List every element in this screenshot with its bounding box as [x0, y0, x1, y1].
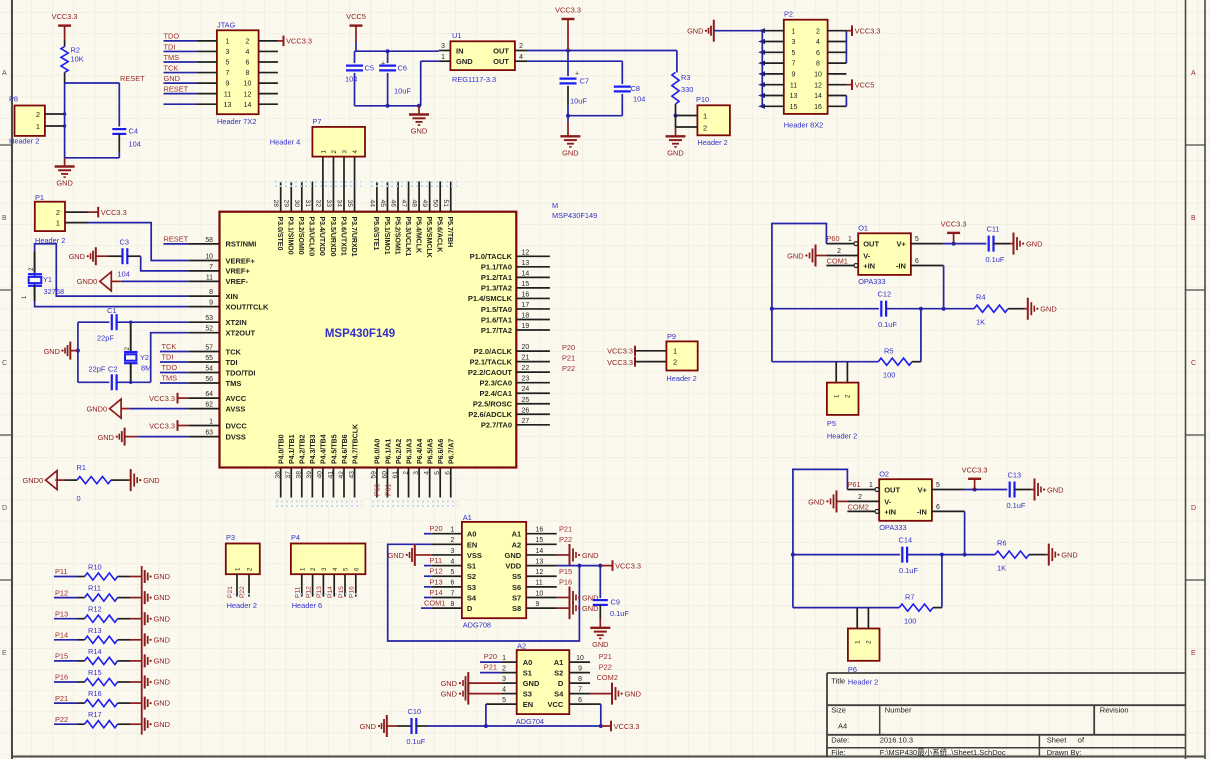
MCU pin 55 TDI	[188, 355, 237, 367]
svg-text:P4.1/TB1: P4.1/TB1	[289, 434, 296, 464]
svg-text:C4: C4	[129, 127, 138, 136]
svg-text:GND: GND	[787, 252, 803, 261]
svg-text:TDI: TDI	[226, 358, 238, 367]
svg-text:P6.7/A7: P6.7/A7	[449, 439, 456, 464]
svg-text:C13: C13	[1008, 471, 1022, 480]
svg-text:25: 25	[522, 397, 530, 404]
wire A1 VDD to VCC3.3	[557, 564, 603, 568]
node TDO label	[164, 32, 180, 41]
node P22 label (A1)	[559, 535, 572, 544]
svg-text:P5.3/UCLK1: P5.3/UCLK1	[404, 217, 411, 257]
svg-text:VCC: VCC	[547, 700, 563, 709]
svg-text:13: 13	[536, 558, 544, 565]
A1 pin 14	[526, 548, 557, 555]
svg-text:GND: GND	[562, 148, 578, 157]
svg-text:45: 45	[379, 200, 386, 208]
svg-text:60: 60	[381, 471, 388, 479]
svg-text:P7: P7	[312, 117, 321, 126]
MCU pin 58 RST/NMI	[188, 237, 256, 249]
svg-text:VDD: VDD	[505, 562, 521, 571]
node P16 label (P4)	[349, 586, 356, 598]
ground GND (R14)	[130, 654, 170, 667]
O2 pin 1 wire	[847, 480, 879, 492]
node P12 label (A1)	[424, 567, 443, 577]
svg-text:9: 9	[792, 72, 796, 79]
svg-text:VCC3.3: VCC3.3	[614, 722, 640, 731]
svg-text:22pF: 22pF	[89, 365, 106, 374]
svg-text:C2: C2	[108, 365, 117, 374]
svg-text:VCC3.3: VCC3.3	[101, 208, 127, 217]
node TDI label	[164, 42, 176, 51]
svg-text:Y2: Y2	[140, 353, 149, 362]
svg-text:1: 1	[848, 236, 852, 243]
svg-text:31: 31	[304, 200, 311, 208]
svg-text:P2.0/ACLK: P2.0/ACLK	[474, 347, 513, 356]
A1 pin 2	[432, 537, 462, 544]
svg-text:GND: GND	[154, 657, 170, 666]
svg-text:R3: R3	[681, 73, 690, 82]
svg-text:P6.5/A5: P6.5/A5	[427, 439, 434, 464]
svg-text:P22: P22	[559, 535, 572, 544]
node RESET label	[164, 84, 189, 93]
svg-text:A: A	[1191, 70, 1196, 77]
MCU pin 18 P1.6/TA1	[481, 312, 550, 324]
resistor R3	[672, 51, 693, 116]
svg-text:MSP430F149: MSP430F149	[325, 328, 395, 340]
capacitor C6 (polarized)	[379, 51, 411, 106]
svg-text:27: 27	[522, 418, 530, 425]
svg-text:22: 22	[522, 365, 530, 372]
P2 value label	[784, 121, 823, 130]
svg-text:P1.5/TA0: P1.5/TA0	[481, 305, 512, 314]
svg-text:1: 1	[869, 482, 873, 489]
svg-text:P2.2/CAOUT: P2.2/CAOUT	[468, 368, 513, 377]
crystal Y1	[22, 244, 188, 301]
svg-text:1: 1	[36, 122, 40, 131]
svg-text:1: 1	[502, 655, 506, 662]
MCU top pin 45 P5.1/SIMO1	[379, 181, 390, 254]
svg-text:7: 7	[209, 264, 213, 271]
wire A2 VCC pin6	[590, 704, 603, 728]
svg-text:Drawn By:: Drawn By:	[1047, 748, 1082, 757]
svg-text:8: 8	[816, 61, 820, 68]
svg-text:COM2: COM2	[597, 673, 618, 682]
svg-text:B: B	[2, 215, 7, 222]
ground GND (R15)	[130, 676, 170, 689]
svg-text:P1.6/TA1: P1.6/TA1	[481, 315, 512, 324]
svg-text:62: 62	[205, 402, 213, 409]
MCU top pin 34 P3.6/UTXD1	[335, 157, 346, 256]
A1 pin 11	[526, 580, 557, 587]
node P21 label (P3)	[227, 586, 234, 598]
svg-text:S1: S1	[467, 562, 476, 571]
svg-text:GND: GND	[360, 722, 376, 731]
MCU pin 53 XT2IN	[188, 315, 246, 327]
svg-text:R4: R4	[976, 293, 985, 302]
MCU top pin 47 P5.3/UCLK1	[400, 181, 411, 256]
JTAG pin 4 wire	[246, 49, 278, 56]
node P14 label (P4)	[327, 586, 334, 598]
wire C2 to XT2OUT	[151, 333, 189, 383]
power VCC3.3 (AVCC)	[149, 393, 188, 404]
JTAG pin 3 wire	[164, 49, 230, 56]
svg-text:P2.6/ADCLK: P2.6/ADCLK	[468, 410, 512, 419]
A2 pin 2	[502, 665, 517, 672]
svg-text:0: 0	[77, 494, 81, 503]
svg-text:P3.0/STE0: P3.0/STE0	[276, 217, 283, 251]
svg-text:P22: P22	[55, 715, 68, 724]
svg-text:E: E	[2, 650, 7, 657]
svg-text:RESET: RESET	[120, 74, 145, 83]
svg-text:AVSS: AVSS	[226, 404, 246, 413]
svg-text:P60: P60	[375, 484, 382, 496]
A2 pin 9	[569, 665, 590, 672]
svg-text:P15: P15	[338, 586, 345, 598]
svg-text:4: 4	[246, 49, 250, 56]
svg-text:3: 3	[502, 676, 506, 683]
svg-text:GND: GND	[592, 640, 608, 649]
svg-text:51: 51	[442, 200, 449, 208]
svg-text:P60: P60	[827, 234, 840, 243]
svg-text:MSP430F149: MSP430F149	[552, 211, 597, 220]
JTAG pin 1 wire	[164, 39, 230, 46]
wire A2 EN to VCC rail	[484, 704, 517, 728]
svg-text:1: 1	[833, 394, 840, 398]
svg-text:R5: R5	[884, 347, 893, 356]
svg-text:54: 54	[205, 366, 213, 373]
svg-text:36: 36	[275, 471, 282, 479]
svg-text:C11: C11	[987, 225, 1000, 234]
node TMS label	[160, 373, 188, 383]
connector P3 Header 2	[226, 533, 260, 610]
P2 pin 1 wire	[762, 28, 795, 35]
wire R7 to C14 node	[941, 555, 943, 608]
svg-text:GND0: GND0	[23, 476, 44, 485]
svg-text:+: +	[575, 71, 579, 78]
svg-text:53: 53	[205, 315, 213, 322]
MCU top pin 29 P3.1/SIMO0	[283, 181, 294, 254]
svg-text:GND: GND	[388, 551, 404, 560]
svg-text:GND: GND	[1040, 305, 1056, 314]
node TDI label	[160, 352, 188, 362]
svg-text:2: 2	[246, 39, 250, 46]
svg-text:12: 12	[522, 249, 530, 256]
MCU top pin 51 P5.7/TBH	[442, 181, 453, 247]
svg-text:5: 5	[936, 482, 940, 489]
svg-text:P10: P10	[696, 95, 709, 104]
svg-text:COM1: COM1	[827, 257, 848, 266]
node P11 label	[54, 567, 78, 576]
svg-text:RST/NMI: RST/NMI	[226, 240, 257, 249]
svg-text:12: 12	[244, 91, 252, 98]
svg-text:P22: P22	[239, 586, 246, 598]
P2 pin 16 wire	[814, 104, 846, 111]
A1 pin 6	[432, 580, 462, 587]
svg-text:C1: C1	[107, 306, 116, 315]
svg-text:0.1uF: 0.1uF	[878, 320, 897, 329]
svg-text:11: 11	[206, 274, 213, 281]
ground GND (regulator)	[409, 106, 429, 136]
svg-text:Header 2: Header 2	[848, 677, 878, 686]
svg-text:P20: P20	[484, 652, 497, 661]
svg-text:A2: A2	[512, 540, 522, 549]
svg-text:P3.3/UCLK0: P3.3/UCLK0	[308, 217, 315, 257]
svg-text:P16: P16	[349, 586, 356, 598]
svg-text:5: 5	[343, 567, 350, 571]
wire regulator gnd rail	[355, 61, 422, 108]
svg-text:P4.2/TB2: P4.2/TB2	[300, 434, 307, 464]
svg-text:P15: P15	[55, 652, 68, 661]
svg-text:GND: GND	[154, 593, 170, 602]
svg-text:VCC3.3: VCC3.3	[555, 6, 581, 15]
svg-text:GND0: GND0	[77, 277, 98, 286]
svg-text:2: 2	[450, 537, 454, 544]
svg-text:15: 15	[536, 537, 544, 544]
svg-text:49: 49	[421, 200, 428, 208]
svg-text:P6.3/A3: P6.3/A3	[406, 439, 413, 464]
svg-text:13: 13	[224, 102, 232, 109]
svg-text:GND: GND	[667, 148, 683, 157]
svg-text:TDI: TDI	[162, 352, 174, 361]
svg-text:6: 6	[915, 258, 919, 265]
svg-text:VCC3.3: VCC3.3	[52, 12, 78, 21]
svg-text:104: 104	[633, 95, 645, 104]
U1 pin 3	[439, 43, 451, 51]
capacitor C1	[78, 306, 188, 343]
svg-text:GND: GND	[1047, 485, 1063, 494]
ground GND (R17)	[130, 718, 170, 731]
svg-text:VREF-: VREF-	[226, 277, 249, 286]
compile marks (P3 P4)	[228, 593, 360, 595]
svg-text:P11: P11	[430, 556, 443, 565]
svg-text:C: C	[1191, 360, 1196, 367]
MCU bottom pin 59 P6.0/A0	[371, 439, 382, 498]
wire P2 pins 14-16	[845, 96, 847, 107]
svg-text:3: 3	[321, 567, 328, 571]
node RESET label	[120, 74, 145, 83]
resistor R7	[793, 593, 942, 626]
svg-text:R15: R15	[88, 668, 102, 677]
svg-text:P5.1/SIMO1: P5.1/SIMO1	[383, 217, 390, 255]
svg-text:37: 37	[285, 471, 292, 479]
svg-text:P4.7/TBCLK: P4.7/TBCLK	[352, 424, 359, 464]
svg-text:P3.2/SOMI0: P3.2/SOMI0	[297, 217, 304, 255]
wire Y1 to XOUT	[35, 301, 189, 307]
resistor R2	[61, 46, 84, 73]
svg-text:P4.3/TB3: P4.3/TB3	[310, 434, 317, 464]
svg-text:S5: S5	[512, 572, 521, 581]
P2 pin 2 wire	[816, 28, 846, 35]
svg-text:VCC5: VCC5	[346, 12, 366, 21]
svg-text:22pF: 22pF	[97, 334, 114, 343]
svg-text:XOUT/TCLK: XOUT/TCLK	[226, 302, 269, 311]
A2 pin 5	[502, 697, 506, 704]
svg-text:2: 2	[402, 471, 409, 475]
MCU pin 22 P2.2/CAOUT	[468, 365, 550, 377]
node P20 label (A1)	[424, 524, 443, 534]
svg-text:52: 52	[205, 326, 213, 333]
node P22 label	[54, 715, 78, 724]
svg-text:GND: GND	[456, 57, 473, 66]
JTAG pin 2 wire	[246, 39, 278, 46]
O1 pin 6 wire	[911, 258, 946, 311]
wire P1 pin1 to VEREF+	[65, 223, 188, 261]
svg-text:6: 6	[246, 60, 250, 67]
wire GND bus (resistor bank)	[141, 566, 143, 735]
node TCK label	[164, 63, 179, 72]
ground GND (R16)	[130, 697, 170, 710]
svg-text:A0: A0	[523, 658, 533, 667]
svg-text:TMS: TMS	[226, 379, 242, 388]
svg-text:0.1uF: 0.1uF	[986, 255, 1005, 264]
svg-text:GND: GND	[1061, 550, 1077, 559]
svg-text:GND: GND	[411, 127, 427, 136]
svg-text:C14: C14	[899, 536, 913, 545]
connector P7 Header 4	[270, 117, 365, 157]
JTAG pin 5 wire	[164, 60, 230, 67]
svg-text:P21: P21	[227, 586, 234, 598]
MCU pin 14 P1.2/TA1	[481, 270, 550, 282]
svg-text:Header 7X2: Header 7X2	[217, 117, 256, 126]
svg-text:GND: GND	[523, 679, 540, 688]
svg-text:D: D	[1191, 505, 1196, 512]
svg-text:S6: S6	[512, 583, 521, 592]
A1 pin 1	[432, 527, 462, 534]
svg-text:S2: S2	[554, 669, 563, 678]
svg-text:16: 16	[536, 527, 544, 534]
svg-text:10: 10	[205, 254, 213, 261]
svg-text:6: 6	[450, 580, 454, 587]
svg-text:11: 11	[790, 82, 797, 89]
svg-text:Number: Number	[885, 706, 912, 715]
svg-text:VCC3.3: VCC3.3	[615, 561, 641, 570]
svg-text:GND: GND	[154, 699, 170, 708]
node P21 label (A2)	[480, 663, 502, 673]
capacitor C4	[112, 127, 141, 153]
ground GND (C3)	[69, 247, 108, 265]
svg-text:F:\MSP430最小系统..\Sheet1.SchDoc: F:\MSP430最小系统..\Sheet1.SchDoc	[880, 747, 1006, 757]
power VCC3.3 (A1 VDD)	[600, 560, 641, 571]
capacitor C13	[1007, 471, 1032, 511]
node GND label	[164, 74, 180, 83]
wire P2 VCC3.3 rail	[846, 31, 852, 63]
svg-text:P5: P5	[827, 419, 836, 428]
multiplexer A2 ADG704	[516, 641, 570, 726]
A2 pin 6	[569, 697, 590, 704]
svg-text:1: 1	[299, 567, 306, 571]
wire O2 feedback loop	[791, 469, 848, 607]
capacitor C2	[78, 365, 151, 391]
svg-text:1: 1	[854, 640, 861, 644]
P2 pin 3 wire	[762, 39, 795, 46]
MCU pin 52 XT2OUT	[188, 326, 255, 338]
svg-text:EN: EN	[523, 700, 533, 709]
svg-text:4: 4	[352, 150, 359, 154]
svg-text:P21: P21	[559, 525, 572, 534]
svg-text:P1.1/TA0: P1.1/TA0	[481, 263, 512, 272]
svg-text:TCK: TCK	[226, 347, 242, 356]
svg-text:C7: C7	[580, 77, 589, 86]
svg-text:4: 4	[816, 39, 820, 46]
svg-text:P1.0/TACLK: P1.0/TACLK	[470, 252, 513, 261]
MCU bottom pin 36 P4.0/TB0	[275, 434, 286, 497]
svg-text:VCC3.3: VCC3.3	[286, 37, 312, 46]
svg-text:39: 39	[306, 471, 313, 479]
wire P8 pin1	[45, 124, 66, 127]
svg-text:Header 2: Header 2	[666, 374, 696, 383]
svg-text:Title: Title	[831, 676, 845, 685]
svg-text:P9: P9	[667, 332, 676, 341]
svg-text:P3.6/UTXD1: P3.6/UTXD1	[339, 217, 346, 256]
svg-text:8: 8	[578, 676, 582, 683]
svg-text:U1: U1	[452, 31, 461, 40]
svg-text:29: 29	[283, 200, 290, 208]
U1 pin 4	[515, 54, 527, 61]
svg-text:P20: P20	[562, 343, 575, 352]
svg-text:Sheet: Sheet	[1047, 735, 1068, 744]
svg-text:6: 6	[936, 504, 940, 511]
svg-text:5: 5	[450, 569, 454, 576]
svg-text:20: 20	[522, 344, 530, 351]
svg-text:7: 7	[450, 590, 454, 597]
ground GND (A1 VSS)	[388, 544, 432, 566]
node P12 label	[54, 588, 78, 597]
svg-text:26: 26	[522, 407, 530, 414]
MCU pin 63 DVSS	[188, 430, 246, 442]
svg-text:10K: 10K	[71, 55, 84, 64]
svg-text:2: 2	[310, 567, 317, 571]
P10 pin 1 wire	[676, 115, 698, 117]
svg-text:P11: P11	[295, 586, 302, 598]
MCU bottom pin 5 P6.6/A6	[434, 439, 445, 498]
svg-text:R6: R6	[997, 539, 1006, 548]
svg-text:GND: GND	[44, 347, 60, 356]
O1 pin 1 wire	[826, 234, 858, 246]
svg-text:P2.4/CA1: P2.4/CA1	[479, 389, 512, 398]
resistor R1	[65, 463, 127, 503]
svg-text:P6.4/A4: P6.4/A4	[417, 439, 424, 464]
ground GND (O1 V-)	[787, 245, 858, 267]
svg-text:P8: P8	[9, 95, 18, 104]
svg-text:S4: S4	[554, 690, 564, 699]
svg-text:14: 14	[536, 548, 544, 555]
svg-text:19: 19	[522, 323, 530, 330]
svg-text:5: 5	[502, 697, 506, 704]
svg-text:+IN: +IN	[884, 508, 896, 517]
svg-text:O2: O2	[879, 470, 889, 479]
svg-text:2: 2	[56, 208, 60, 217]
svg-text:A: A	[2, 70, 7, 77]
svg-text:2: 2	[673, 358, 677, 367]
A1 pin 4	[432, 558, 462, 565]
svg-text:P3.1/SIMO0: P3.1/SIMO0	[287, 217, 294, 255]
svg-text:8M: 8M	[141, 364, 151, 373]
svg-text:P61: P61	[848, 480, 861, 489]
A2 pin 10	[569, 655, 590, 662]
MCU top pin 30 P3.2/SOMI0	[293, 181, 304, 254]
svg-text:JTAG: JTAG	[217, 21, 236, 30]
node TCK label	[160, 342, 188, 352]
svg-text:D: D	[2, 505, 7, 512]
svg-text:10uF: 10uF	[394, 87, 411, 96]
svg-text:File:: File:	[831, 748, 845, 757]
MCU pin 15 P1.3/TA2	[481, 281, 550, 293]
svg-text:Size: Size	[831, 706, 846, 715]
svg-text:23: 23	[522, 376, 530, 383]
svg-text:TMS: TMS	[164, 53, 180, 62]
svg-text:17: 17	[522, 302, 530, 309]
svg-text:S8: S8	[512, 604, 521, 613]
